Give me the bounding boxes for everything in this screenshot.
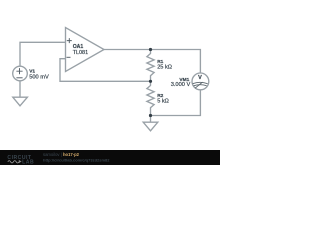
svg-text:3.000 V: 3.000 V bbox=[171, 82, 191, 88]
svg-text:samoilov | ho17-p2: samoilov | ho17-p2 bbox=[43, 152, 80, 157]
svg-text:500 mV: 500 mV bbox=[29, 75, 49, 81]
svg-text:LAB: LAB bbox=[22, 159, 34, 165]
svg-text:TL081: TL081 bbox=[73, 50, 88, 56]
svg-text:V: V bbox=[198, 75, 202, 81]
svg-text:25 kΩ: 25 kΩ bbox=[157, 65, 172, 71]
svg-text:5 kΩ: 5 kΩ bbox=[157, 98, 169, 104]
svg-text:V1: V1 bbox=[29, 69, 35, 75]
svg-text:http://circuitlab.com/c/q73zd2: http://circuitlab.com/c/q73zd2sm82 bbox=[43, 157, 110, 162]
